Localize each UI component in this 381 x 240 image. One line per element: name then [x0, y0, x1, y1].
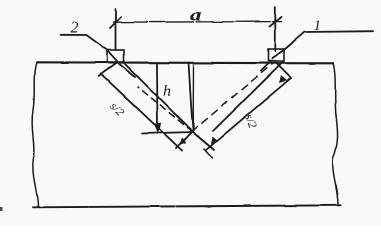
- svg-text:s/2: s/2: [107, 99, 127, 119]
- svg-text:h: h: [163, 83, 171, 100]
- svg-text:a: a: [190, 6, 203, 25]
- svg-text:1: 1: [314, 18, 322, 34]
- svg-text:2: 2: [71, 20, 79, 37]
- svg-text:s/2: s/2: [242, 112, 260, 130]
